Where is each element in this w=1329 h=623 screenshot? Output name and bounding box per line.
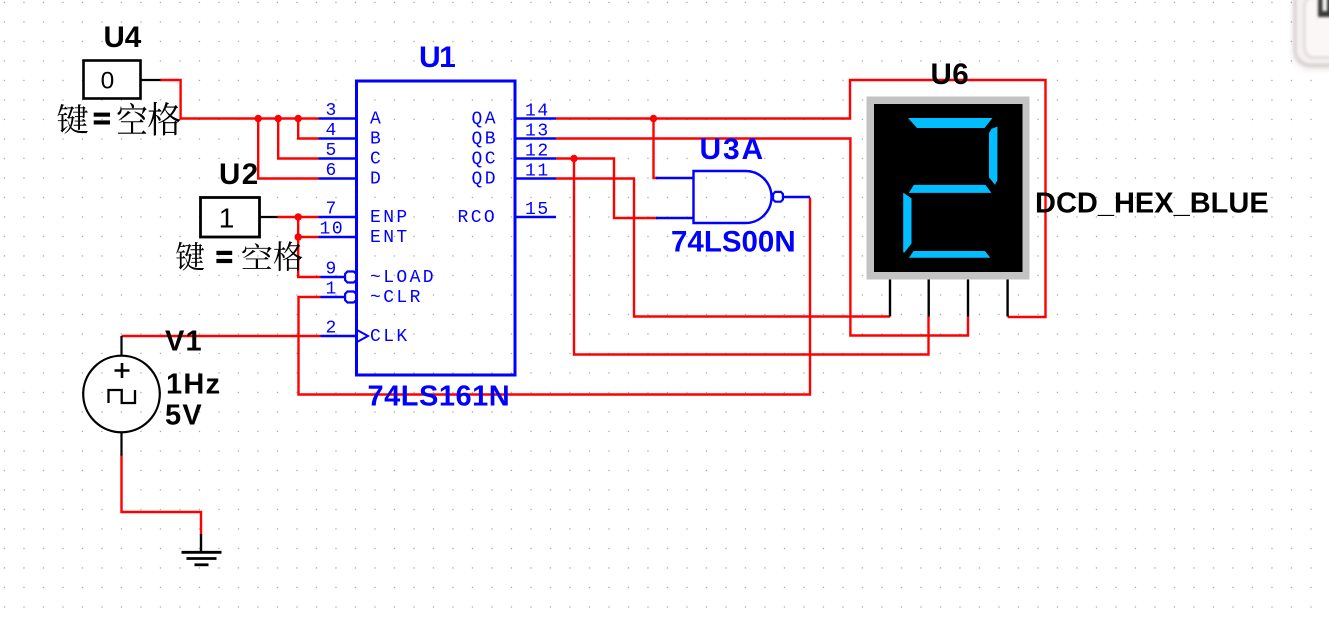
wire node D branch xyxy=(258,119,318,179)
U1 pin stub 15/RCO xyxy=(516,216,556,218)
svg-text:9: 9 xyxy=(326,260,338,280)
display U6 pin 3 xyxy=(967,280,969,317)
label key=space 1: equals sign xyxy=(94,113,110,125)
svg-text:5: 5 xyxy=(326,141,338,161)
U1 pin stub 3/A xyxy=(319,117,357,119)
NAND U3A input stub 2 xyxy=(656,217,694,219)
display U6 segment d xyxy=(909,251,991,258)
svg-text:B: B xyxy=(370,130,383,150)
wire NAND output to ~CLR pin 1 xyxy=(299,198,811,395)
U1 pin stub 13/QB xyxy=(516,137,556,139)
junction dot A1 xyxy=(255,115,262,122)
wire ENT branch xyxy=(298,217,318,237)
wire U4 output black stub xyxy=(141,79,162,81)
U1 pin stub 1/~CLR xyxy=(321,296,346,298)
display U6 segment g xyxy=(909,185,992,193)
display U6 segment e xyxy=(903,193,911,253)
svg-text:4: 4 xyxy=(326,121,338,141)
display U6 frame xyxy=(867,97,1030,280)
wire QC to NAND input2 xyxy=(556,159,658,219)
U1 CLK wedge xyxy=(357,330,368,342)
junction dot A2 xyxy=(275,115,282,122)
junction dot QA xyxy=(650,115,657,122)
U1 pin stub 14/QA xyxy=(516,117,556,119)
NAND U3A output stub xyxy=(784,196,811,198)
junction dot QC xyxy=(570,155,577,162)
ground bar 2 xyxy=(187,557,217,560)
wire V1 bottom to ground xyxy=(122,455,202,536)
svg-text:15: 15 xyxy=(525,200,550,220)
svg-text:QC: QC xyxy=(472,150,498,170)
source V1 bottom stub xyxy=(120,432,122,456)
svg-text:1: 1 xyxy=(326,280,338,300)
label key=space 2: equals sign xyxy=(216,251,232,263)
label key=space 1: char jian xyxy=(58,104,89,134)
svg-text:5V: 5V xyxy=(165,400,203,432)
label key=space 1: char ge xyxy=(148,102,180,136)
label key=space 2: char ge xyxy=(274,241,303,271)
key U4 box xyxy=(84,61,141,99)
svg-text:A: A xyxy=(370,110,383,130)
U1 pin stub 2/CLK xyxy=(321,335,357,337)
U1 pin stub 9/~LOAD xyxy=(321,276,346,278)
U1 pin stub 5/C xyxy=(319,157,357,159)
svg-text:QB: QB xyxy=(472,130,498,150)
display U6 pin 4 xyxy=(1006,280,1008,317)
svg-text:CLK: CLK xyxy=(370,327,410,347)
display U6 segment a xyxy=(908,118,993,128)
source V1 circle xyxy=(83,356,160,433)
U1 pin stub 7/ENP xyxy=(319,216,357,218)
display U6 pin 1 xyxy=(889,280,891,317)
svg-text:~LOAD: ~LOAD xyxy=(370,268,436,288)
NAND U3A body xyxy=(694,171,772,223)
source V1 plus sign xyxy=(115,363,130,378)
wire U4 to pin A (node W1) xyxy=(161,80,319,119)
svg-text:~CLR: ~CLR xyxy=(370,288,423,308)
wire node C branch xyxy=(278,119,318,159)
svg-text:U2: U2 xyxy=(219,158,260,191)
display U6 segment b xyxy=(989,127,997,185)
svg-text:12: 12 xyxy=(525,142,550,162)
svg-text:U6: U6 xyxy=(931,58,970,91)
svg-text:11: 11 xyxy=(525,162,550,182)
svg-text:1: 1 xyxy=(219,203,235,234)
ground bar 1 xyxy=(182,551,222,554)
svg-text:V1: V1 xyxy=(165,326,203,358)
wire QB to U6 pin3 xyxy=(556,139,968,336)
svg-text:0: 0 xyxy=(101,68,115,95)
U1 pin stub 12/QC xyxy=(516,157,556,159)
svg-text:7: 7 xyxy=(326,200,338,220)
U1 pin 9 bubble xyxy=(345,272,356,283)
junction dot A3 xyxy=(295,115,302,122)
svg-text:14: 14 xyxy=(525,102,550,122)
svg-text:QD: QD xyxy=(472,170,498,190)
svg-text:13: 13 xyxy=(525,122,550,142)
svg-text:3: 3 xyxy=(326,101,338,121)
svg-text:2: 2 xyxy=(326,319,338,339)
svg-text:C: C xyxy=(370,150,383,170)
U1 pin stub 4/B xyxy=(319,137,357,139)
ground bar 3 xyxy=(195,563,209,566)
label key=space 1: char kong xyxy=(117,103,146,134)
source V1 top stub xyxy=(120,336,122,357)
svg-text:QA: QA xyxy=(472,110,498,130)
svg-text:ENP: ENP xyxy=(370,208,410,228)
svg-text:10: 10 xyxy=(320,220,345,240)
U1 pin stub 11/QD xyxy=(516,177,556,179)
wire QA branch to NAND input1 xyxy=(654,119,659,179)
svg-text:DCD_HEX_BLUE: DCD_HEX_BLUE xyxy=(1035,188,1269,220)
wire U2 output black stub xyxy=(260,216,279,218)
NAND U3A input stub 1 xyxy=(656,177,694,179)
wire QC branch to U6 pin2 xyxy=(574,159,929,355)
svg-text:U1: U1 xyxy=(419,41,455,74)
U1 pin stub 10/ENT xyxy=(319,236,357,238)
display U6 black face xyxy=(874,104,1023,272)
wire QD to U6 pin1 xyxy=(556,179,890,317)
ground stem xyxy=(200,534,202,552)
IC U1 body xyxy=(357,81,516,375)
label key=space 2: char kong xyxy=(242,243,272,269)
wire QA to U6 pin4 xyxy=(556,80,1046,317)
source V1 squarewave symbol xyxy=(109,390,136,403)
wire node B branch xyxy=(298,119,318,139)
NAND U3A output bubble xyxy=(773,192,783,202)
display U6 pin 2 xyxy=(928,280,930,317)
svg-text:74LS161N: 74LS161N xyxy=(368,381,511,413)
junction dot ENP xyxy=(295,213,302,220)
svg-text:U3A: U3A xyxy=(700,133,765,166)
IME overlay icon top-right xyxy=(1294,0,1329,66)
svg-text:D: D xyxy=(370,170,383,190)
svg-text:6: 6 xyxy=(326,161,338,181)
svg-text:RCO: RCO xyxy=(458,208,498,228)
svg-text:U4: U4 xyxy=(104,21,142,54)
wire to ~LOAD pin 9 xyxy=(298,237,320,277)
junction dot ENT xyxy=(295,233,302,240)
wire V1 to CLK xyxy=(122,335,321,337)
key U2 box xyxy=(201,198,260,238)
svg-text:74LS00N: 74LS00N xyxy=(671,226,796,259)
U1 pin 1 bubble xyxy=(345,292,356,303)
svg-text:1Hz: 1Hz xyxy=(166,369,221,401)
U1 pin stub 6/D xyxy=(319,177,357,179)
svg-text:ENT: ENT xyxy=(370,228,410,248)
wire U2 to ENP xyxy=(278,216,319,218)
label key=space 2: char jian xyxy=(176,242,204,271)
